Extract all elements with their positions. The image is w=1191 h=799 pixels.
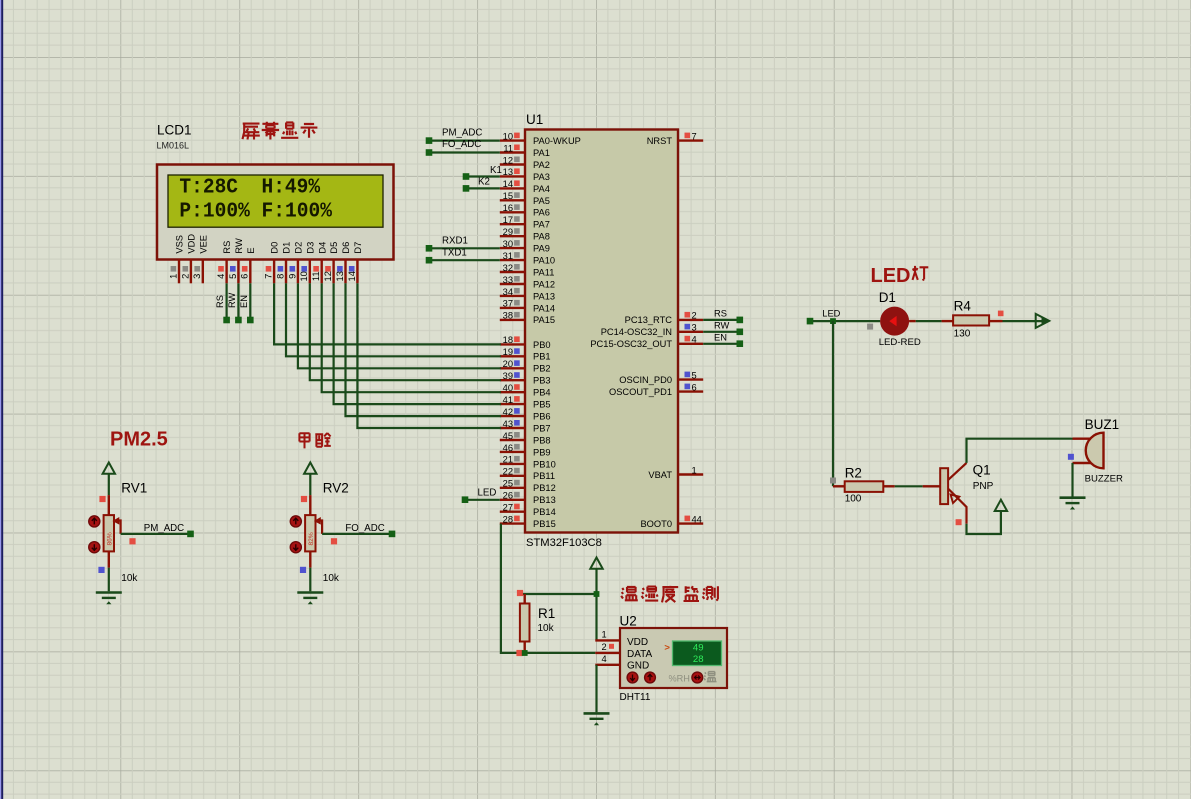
U1 pin 4 (PC15-OSC32_OUT) bbox=[590, 335, 703, 350]
ground under RV2 bbox=[297, 593, 323, 605]
svg-text:PB3: PB3 bbox=[533, 376, 551, 386]
svg-text:PA7: PA7 bbox=[533, 220, 550, 230]
svg-text:U1: U1 bbox=[526, 112, 543, 127]
wire RV2 bottom to ground bbox=[309, 568, 311, 592]
svg-text:LCD1: LCD1 bbox=[157, 123, 192, 138]
svg-text:22: 22 bbox=[503, 467, 513, 477]
U1 pin 5 (OSCIN_PD0) bbox=[619, 370, 703, 385]
resistor R1 10k bbox=[520, 594, 555, 653]
U1 pin 19 (PB1) bbox=[500, 347, 551, 362]
U1 pin 10 (PA0-WKUP) bbox=[500, 131, 581, 146]
svg-text:14: 14 bbox=[347, 271, 357, 281]
svg-text:PB4: PB4 bbox=[533, 388, 551, 398]
svg-text:14: 14 bbox=[503, 179, 513, 189]
svg-text:3: 3 bbox=[192, 274, 202, 279]
svg-text:EN: EN bbox=[714, 333, 727, 343]
svg-text:PA2: PA2 bbox=[533, 160, 550, 170]
svg-text:34: 34 bbox=[503, 287, 513, 297]
svg-text:11: 11 bbox=[311, 271, 321, 281]
svg-text:1: 1 bbox=[602, 630, 607, 640]
svg-text:BUZ1: BUZ1 bbox=[1085, 417, 1120, 432]
svg-text:RS: RS bbox=[215, 295, 225, 308]
svg-text:PB12: PB12 bbox=[533, 483, 556, 493]
svg-text:PB9: PB9 bbox=[533, 447, 551, 457]
wire LCD D2 to U1 PB2 bbox=[298, 283, 501, 368]
svg-text:PA1: PA1 bbox=[533, 148, 550, 158]
U1 pin 40 (PB4) bbox=[500, 383, 551, 398]
svg-text:LM016L: LM016L bbox=[157, 141, 190, 151]
LCD1 pin 1 (VSS) bbox=[168, 235, 184, 283]
label title for RV2 bbox=[299, 433, 330, 448]
svg-text:VDD: VDD bbox=[187, 234, 197, 254]
wire PM_ADC output bbox=[121, 523, 194, 544]
svg-text:PB8: PB8 bbox=[533, 435, 551, 445]
svg-text:16: 16 bbox=[503, 203, 513, 213]
svg-text:E: E bbox=[246, 247, 256, 253]
U1 pin 16 (PA6) bbox=[500, 203, 550, 218]
svg-text:RW: RW bbox=[227, 292, 237, 308]
LCD1 pin 2 (VDD) bbox=[180, 234, 196, 284]
LCD1 pin 4 (RS) bbox=[216, 241, 232, 284]
wire LCD D6 to U1 PB6 bbox=[346, 283, 501, 416]
svg-text:2: 2 bbox=[180, 274, 190, 279]
svg-text:27: 27 bbox=[503, 503, 513, 513]
svg-text:2: 2 bbox=[692, 311, 697, 321]
svg-text:R1: R1 bbox=[538, 606, 555, 621]
power terminal at Q1 emitter bbox=[995, 500, 1007, 511]
U1 pin 39 (PB3) bbox=[500, 371, 551, 386]
svg-text:VSS: VSS bbox=[175, 235, 185, 254]
svg-text:4: 4 bbox=[216, 274, 226, 279]
svg-text:>: > bbox=[664, 642, 670, 653]
svg-text:GND: GND bbox=[627, 661, 649, 672]
svg-text:PA4: PA4 bbox=[533, 184, 550, 194]
U1 pin 42 (PB6) bbox=[500, 407, 551, 422]
U1 pin 13 (PA3) bbox=[500, 167, 550, 182]
wire BUZ1 to ground bbox=[1071, 463, 1073, 497]
svg-text:PB13: PB13 bbox=[533, 495, 556, 505]
wire LCD D3 to U1 PB3 bbox=[310, 283, 501, 380]
LCD1 pin 3 (VEE) bbox=[192, 235, 208, 283]
wire net K2 to U1 bbox=[463, 177, 500, 192]
U1 pin 17 (PA7) bbox=[500, 215, 550, 230]
resistor R4 130 bbox=[942, 298, 1004, 339]
U1 pin 30 (PA9) bbox=[500, 239, 550, 254]
LCD1 pin 10 (D3) bbox=[299, 242, 315, 284]
U1 pin 32 (PA11) bbox=[500, 263, 555, 278]
wire U1 PB15 to DATA net bbox=[501, 524, 595, 653]
wire R1 top to VDD rail bbox=[517, 590, 599, 597]
svg-text:DATA: DATA bbox=[627, 649, 653, 660]
svg-text:D5: D5 bbox=[329, 242, 339, 254]
svg-text:PC14-OSC32_IN: PC14-OSC32_IN bbox=[601, 327, 672, 337]
wire LCD D0 to U1 PB0 bbox=[274, 283, 501, 344]
LCD1 pin 5 (RW) bbox=[228, 238, 244, 283]
wire FO_ADC output bbox=[322, 523, 395, 544]
svg-text:PB0: PB0 bbox=[533, 340, 551, 350]
svg-text:PB6: PB6 bbox=[533, 412, 551, 422]
sensor U2 DHT11 body bbox=[620, 613, 728, 703]
svg-text:LED: LED bbox=[478, 487, 497, 498]
svg-text:5: 5 bbox=[228, 274, 238, 279]
wire Q1 collector up to buzzer line bbox=[967, 439, 1073, 463]
U1 pin 41 (PB5) bbox=[500, 395, 551, 410]
svg-text:40: 40 bbox=[503, 383, 513, 393]
power terminal above U2 bbox=[590, 558, 602, 641]
svg-text:43: 43 bbox=[503, 419, 513, 429]
svg-text:25: 25 bbox=[503, 479, 513, 489]
power terminal for RV1 bbox=[103, 463, 115, 496]
svg-text:PA13: PA13 bbox=[533, 291, 555, 301]
U1 pin 21 (PB10) bbox=[500, 455, 556, 470]
svg-text:PC13_RTC: PC13_RTC bbox=[625, 315, 673, 325]
svg-text:D4: D4 bbox=[317, 242, 327, 254]
svg-text:18: 18 bbox=[503, 335, 513, 345]
LCD1 pin 13 (D6) bbox=[335, 242, 351, 284]
svg-text:FO_ADC: FO_ADC bbox=[442, 139, 481, 150]
svg-text:3: 3 bbox=[692, 323, 697, 333]
svg-text:10k: 10k bbox=[538, 623, 555, 634]
wire net TXD1 to U1 bbox=[426, 247, 500, 263]
svg-text:12: 12 bbox=[323, 271, 333, 281]
wire LCD EN to terminal bbox=[239, 283, 254, 323]
svg-text:13: 13 bbox=[335, 271, 345, 281]
svg-text:D3: D3 bbox=[305, 242, 315, 254]
svg-text:45: 45 bbox=[503, 431, 513, 441]
svg-text:PNP: PNP bbox=[973, 481, 994, 492]
svg-text:PA11: PA11 bbox=[533, 267, 554, 277]
svg-text:9: 9 bbox=[287, 274, 297, 279]
svg-text:D1: D1 bbox=[282, 242, 292, 254]
svg-text:26: 26 bbox=[503, 491, 513, 501]
svg-text:VBAT: VBAT bbox=[648, 470, 672, 480]
svg-text:10: 10 bbox=[299, 271, 309, 281]
svg-text:6: 6 bbox=[692, 382, 697, 392]
svg-text:TXD1: TXD1 bbox=[442, 247, 467, 258]
svg-text:19: 19 bbox=[503, 347, 513, 357]
wire RV1 bottom to ground bbox=[108, 568, 110, 592]
U1 pin 2 (PC13_RTC) bbox=[625, 311, 704, 326]
svg-text:37: 37 bbox=[503, 299, 513, 309]
svg-text:STM32F103C8: STM32F103C8 bbox=[526, 537, 602, 549]
label title 屏幕显示 bbox=[242, 122, 317, 140]
svg-text:D0: D0 bbox=[270, 242, 280, 254]
svg-text:DHT11: DHT11 bbox=[620, 692, 651, 703]
U1 pin 43 (PB7) bbox=[500, 419, 551, 434]
svg-text:D6: D6 bbox=[341, 242, 351, 254]
svg-text:44: 44 bbox=[692, 514, 702, 524]
buzzer BUZ1 bbox=[1068, 417, 1123, 484]
svg-text:PA3: PA3 bbox=[533, 172, 550, 182]
wire U2 GND to ground bbox=[595, 665, 597, 712]
svg-text:86%: 86% bbox=[106, 532, 113, 545]
svg-text:46: 46 bbox=[503, 443, 513, 453]
svg-text:29: 29 bbox=[503, 227, 513, 237]
wire R2 to Q1 base bbox=[895, 485, 941, 487]
U1 pin 11 (PA1) bbox=[500, 143, 550, 158]
LCD1 pin 11 (D4) bbox=[311, 242, 327, 284]
svg-text:21: 21 bbox=[503, 455, 513, 465]
svg-text:PB11: PB11 bbox=[533, 471, 555, 481]
U2 pin 1 (VDD) bbox=[595, 630, 620, 641]
U1 pin 15 (PA5) bbox=[500, 191, 550, 206]
svg-text:NRST: NRST bbox=[647, 136, 673, 146]
U1 pin 31 (PA10) bbox=[500, 251, 555, 266]
svg-text:8: 8 bbox=[275, 274, 285, 279]
U1 pin 38 (PA15) bbox=[500, 311, 555, 326]
wire net LED terminal bbox=[807, 309, 881, 325]
potentiometer RV2 10k bbox=[290, 480, 349, 584]
svg-text:PB7: PB7 bbox=[533, 423, 551, 433]
svg-text:4: 4 bbox=[602, 654, 607, 664]
svg-text:D7: D7 bbox=[353, 242, 363, 254]
U1 pin 18 (PB0) bbox=[500, 335, 551, 350]
svg-text:PB5: PB5 bbox=[533, 400, 551, 410]
wire LCD RS to terminal bbox=[215, 283, 230, 323]
U1 pin 12 (PA2) bbox=[500, 155, 550, 170]
svg-text:2: 2 bbox=[602, 642, 607, 652]
svg-text:PA12: PA12 bbox=[533, 279, 555, 289]
svg-text:R2: R2 bbox=[845, 465, 862, 480]
svg-text:15: 15 bbox=[503, 191, 513, 201]
svg-text:RS: RS bbox=[222, 241, 232, 254]
svg-text:RW: RW bbox=[234, 238, 244, 254]
wire LCD D1 to U1 PB1 bbox=[286, 283, 501, 356]
U1 pin 44 (BOOT0) bbox=[640, 514, 703, 529]
svg-text:PB15: PB15 bbox=[533, 519, 556, 529]
U1 pin 14 (PA4) bbox=[500, 179, 550, 194]
svg-text:OSCIN_PD0: OSCIN_PD0 bbox=[619, 375, 672, 385]
LCD1 pin 7 (D0) bbox=[264, 242, 280, 284]
LCD1 pin 6 (E) bbox=[240, 247, 256, 283]
svg-text:PA15: PA15 bbox=[533, 315, 555, 325]
svg-text:10: 10 bbox=[503, 131, 513, 141]
wire LED node down to R2 bbox=[830, 321, 836, 486]
svg-text:R4: R4 bbox=[954, 298, 972, 313]
svg-text:LED-RED: LED-RED bbox=[879, 337, 921, 348]
U1 pin 26 (PB13) bbox=[500, 491, 556, 506]
svg-text:RS: RS bbox=[714, 309, 727, 319]
svg-text:LED: LED bbox=[871, 265, 911, 287]
U1 pin 29 (PA8) bbox=[500, 227, 550, 242]
svg-text:K2: K2 bbox=[478, 177, 490, 188]
wire LCD D5 to U1 PB5 bbox=[334, 283, 501, 404]
svg-text:K1: K1 bbox=[490, 165, 502, 176]
svg-text:RW: RW bbox=[714, 321, 730, 331]
svg-text:PM_ADC: PM_ADC bbox=[144, 523, 184, 534]
svg-text:20: 20 bbox=[503, 359, 513, 369]
label title 温湿度监测 bbox=[621, 586, 718, 603]
svg-text:U2: U2 bbox=[620, 613, 637, 628]
svg-text:P:100% F:100%: P:100% F:100% bbox=[179, 200, 332, 224]
resistor R2 100 bbox=[833, 465, 895, 504]
wire net PM_ADC to U1 bbox=[426, 127, 500, 144]
U1 pin 33 (PA12) bbox=[500, 275, 555, 290]
U1 pin 34 (PA13) bbox=[500, 287, 555, 302]
svg-text:5: 5 bbox=[692, 370, 697, 380]
svg-text:PB1: PB1 bbox=[533, 352, 551, 362]
U1 pin 3 (PC14-OSC32_IN) bbox=[601, 323, 704, 338]
svg-text:7: 7 bbox=[264, 274, 274, 279]
svg-text:EN: EN bbox=[239, 295, 249, 308]
svg-text:17: 17 bbox=[503, 215, 513, 225]
LED D1 LED-RED bbox=[867, 290, 921, 348]
svg-text:RXD1: RXD1 bbox=[442, 236, 468, 247]
wire D1 to R4 bbox=[916, 320, 942, 322]
svg-text:10k: 10k bbox=[121, 573, 138, 584]
power terminal for RV2 bbox=[304, 463, 316, 496]
svg-text:82%: 82% bbox=[308, 532, 315, 545]
svg-text:D2: D2 bbox=[294, 242, 304, 254]
U1 pin 22 (PB11) bbox=[500, 467, 555, 482]
node R1 bottom junction bbox=[516, 650, 527, 656]
svg-text:100: 100 bbox=[845, 493, 862, 504]
U2 pin 2 (DATA) bbox=[595, 642, 620, 653]
U1 pin 20 (PB2) bbox=[500, 359, 551, 374]
wire net RXD1 to U1 bbox=[426, 236, 500, 252]
svg-text:PB2: PB2 bbox=[533, 364, 551, 374]
wire net RS from U1 bbox=[703, 309, 743, 324]
svg-text:BOOT0: BOOT0 bbox=[640, 519, 672, 529]
svg-text:D1: D1 bbox=[879, 290, 896, 305]
svg-text:BUZZER: BUZZER bbox=[1085, 473, 1123, 484]
wire LCD D7 to U1 PB7 bbox=[357, 283, 501, 428]
svg-text:RV2: RV2 bbox=[323, 480, 349, 495]
svg-text:Q1: Q1 bbox=[973, 463, 991, 478]
ground under RV1 bbox=[96, 593, 122, 605]
label title for RV1 bbox=[110, 428, 168, 450]
svg-text:32: 32 bbox=[503, 263, 513, 273]
U2 pin 4 (GND) bbox=[595, 654, 620, 665]
svg-text:28: 28 bbox=[503, 514, 513, 524]
wire net RW from U1 bbox=[703, 321, 743, 336]
svg-text:4: 4 bbox=[692, 335, 697, 345]
svg-text:10k: 10k bbox=[323, 573, 340, 584]
svg-text:PA6: PA6 bbox=[533, 208, 550, 218]
node LED junction bbox=[830, 318, 836, 324]
wire Q1 emitter to power bbox=[967, 511, 1001, 534]
svg-text:1: 1 bbox=[692, 465, 697, 475]
ground under U2 bbox=[584, 713, 610, 725]
ground under BUZ1 bbox=[1060, 498, 1086, 510]
svg-text:FO_ADC: FO_ADC bbox=[345, 523, 384, 534]
svg-text:13: 13 bbox=[503, 167, 513, 177]
svg-text:%RH: %RH bbox=[669, 673, 690, 683]
U1 pin 1 (VBAT) bbox=[648, 465, 703, 480]
svg-text:PA9: PA9 bbox=[533, 244, 550, 254]
svg-text:PA0-WKUP: PA0-WKUP bbox=[533, 136, 581, 146]
wire net LED to U1 bbox=[462, 487, 500, 503]
svg-text:33: 33 bbox=[503, 275, 513, 285]
wire LCD D4 to U1 PB4 bbox=[322, 283, 501, 392]
svg-text:VDD: VDD bbox=[627, 637, 648, 648]
LCD1 pin 9 (D2) bbox=[287, 242, 303, 284]
svg-text:PB14: PB14 bbox=[533, 507, 556, 517]
LCD LCD1 LM016L body bbox=[157, 123, 394, 260]
svg-text:PA5: PA5 bbox=[533, 196, 550, 206]
U1 pin 28 (PB15) bbox=[500, 514, 556, 529]
U1 pin 7 (NRST) bbox=[647, 131, 704, 146]
svg-text:31: 31 bbox=[503, 251, 513, 261]
svg-text:1: 1 bbox=[168, 274, 178, 279]
svg-text:PC15-OSC32_OUT: PC15-OSC32_OUT bbox=[590, 339, 672, 349]
svg-text:30: 30 bbox=[503, 239, 513, 249]
svg-text:39: 39 bbox=[503, 371, 513, 381]
wire R4 to output arrow bbox=[1003, 314, 1050, 328]
U1 pin 45 (PB8) bbox=[500, 431, 551, 446]
LCD1 pin 8 (D1) bbox=[275, 242, 291, 284]
IC U1 STM32F103C8 body bbox=[525, 112, 678, 549]
svg-text:OSCOUT_PD1: OSCOUT_PD1 bbox=[609, 387, 672, 397]
svg-text:VEE: VEE bbox=[198, 235, 208, 254]
svg-text:6: 6 bbox=[240, 274, 250, 279]
svg-text:42: 42 bbox=[503, 407, 513, 417]
svg-text:PA14: PA14 bbox=[533, 303, 555, 313]
U1 pin 37 (PA14) bbox=[500, 299, 555, 314]
svg-text:28: 28 bbox=[693, 654, 704, 665]
svg-text:PM2.5: PM2.5 bbox=[110, 428, 168, 450]
svg-text:41: 41 bbox=[503, 395, 513, 405]
U1 pin 27 (PB14) bbox=[500, 503, 556, 518]
potentiometer RV1 10k bbox=[89, 480, 148, 584]
svg-text:RV1: RV1 bbox=[121, 480, 147, 495]
svg-text:LED: LED bbox=[822, 309, 840, 319]
wire net K1 to U1 bbox=[463, 165, 502, 180]
wire net FO_ADC to U1 bbox=[426, 139, 500, 156]
svg-text:38: 38 bbox=[503, 311, 513, 321]
svg-text:PB10: PB10 bbox=[533, 459, 556, 469]
svg-text:12: 12 bbox=[503, 155, 513, 165]
wire net EN from U1 bbox=[703, 333, 743, 347]
svg-text:PM_ADC: PM_ADC bbox=[442, 127, 482, 138]
svg-text:PA10: PA10 bbox=[533, 256, 555, 266]
label title LED灯 bbox=[871, 265, 929, 287]
U1 pin 46 (PB9) bbox=[500, 443, 551, 458]
LCD1 pin 14 (D7) bbox=[347, 242, 363, 284]
svg-text:T:28C H:49%: T:28C H:49% bbox=[179, 176, 320, 200]
LCD1 pin 12 (D5) bbox=[323, 242, 339, 284]
svg-text:11: 11 bbox=[503, 143, 513, 153]
svg-text:7: 7 bbox=[692, 131, 697, 141]
wire LCD RW to terminal bbox=[227, 283, 242, 323]
svg-text:49: 49 bbox=[693, 642, 704, 653]
U1 pin 25 (PB12) bbox=[500, 479, 556, 494]
transistor Q1 PNP bbox=[940, 463, 993, 526]
svg-text:130: 130 bbox=[954, 329, 971, 340]
svg-text:PA8: PA8 bbox=[533, 232, 550, 242]
U1 pin 6 (OSCOUT_PD1) bbox=[609, 382, 703, 397]
